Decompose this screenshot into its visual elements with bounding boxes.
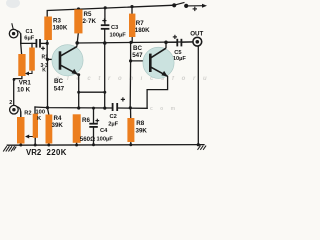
wire R4 top lead	[48, 108, 49, 114]
node: Q2 collector on output line	[164, 41, 168, 45]
wire OUT down lead	[197, 46, 199, 144]
capacitor C3	[101, 19, 126, 39]
resistor R4	[46, 115, 64, 144]
capacitor C4	[89, 119, 113, 143]
node: Q2 base at circle	[144, 59, 147, 62]
node: R8 bottom on ground rail	[129, 143, 132, 146]
wire C3 top lead	[104, 8, 106, 25]
capacitor C5	[173, 35, 187, 62]
wire R8 bottom lead	[130, 142, 132, 145]
node: emitter branch left	[77, 91, 80, 94]
svg-text:220K: 220K	[47, 148, 67, 157]
svg-text:39K: 39K	[136, 128, 148, 135]
svg-text:39K: 39K	[52, 122, 64, 129]
svg-text:R8: R8	[136, 120, 144, 127]
svg-text:R6: R6	[82, 117, 90, 124]
capacitor C2	[108, 97, 125, 127]
svg-text:547: 547	[132, 52, 143, 59]
wire R7 bottom lead	[131, 37, 133, 61]
svg-text:C3: C3	[111, 25, 118, 31]
svg-text:560Ω: 560Ω	[80, 136, 95, 143]
svg-text:10µF: 10µF	[173, 56, 187, 62]
wire C4 bottom lead	[93, 127, 95, 144]
wire jack1 hook to VR1	[20, 43, 23, 54]
wire C5 right	[182, 41, 193, 43]
wire Q2 emitter path	[147, 77, 168, 109]
wire R7-R8 column	[129, 61, 131, 108]
resistor R6	[73, 114, 95, 143]
wire emitter-C3 cross branch	[79, 91, 105, 93]
wire VR2 bottom lead	[20, 144, 22, 146]
svg-text:R7: R7	[136, 20, 144, 27]
node: C4 bottom on ground rail	[92, 143, 95, 146]
resistor R3	[44, 17, 68, 41]
svg-text:C1: C1	[26, 29, 33, 35]
svg-text:R4: R4	[54, 115, 62, 122]
svg-text:6µF: 6µF	[24, 35, 34, 41]
svg-text:2µF: 2µF	[108, 121, 118, 127]
svg-text:100µF: 100µF	[97, 137, 114, 143]
wire C1 input segment	[21, 34, 36, 44]
svg-text:R1: R1	[42, 54, 49, 60]
faint smudge top-left	[6, 0, 20, 8]
wire Q1 base lead	[47, 58, 59, 60]
node: R6 top on mid rail	[77, 106, 80, 109]
wire C5 left	[166, 41, 177, 43]
node: Q1 collector / R5 bottom	[75, 41, 79, 45]
wire R2 bottom lead	[34, 138, 36, 145]
node: emitter branch right	[103, 91, 106, 94]
wire Q1 emitter column	[78, 75, 80, 108]
watermark	[56, 76, 210, 112]
svg-text:547: 547	[54, 86, 65, 93]
capacitor C1	[24, 29, 45, 50]
wire Q1 base column	[46, 40, 48, 108]
resistor R1	[29, 48, 48, 74]
node: R4 bottom on ground rail	[47, 144, 50, 147]
switch S1	[172, 2, 207, 11]
wire jack2 hook to VR2	[20, 112, 22, 117]
transistor Q2 BC547	[132, 43, 174, 79]
node: Q2 base tee	[129, 59, 132, 62]
ground right	[198, 146, 207, 150]
wire Q2 base lead	[131, 60, 151, 62]
svg-text:100: 100	[36, 110, 46, 116]
node: C3 column on mid rail	[103, 107, 106, 110]
low mid rail	[35, 107, 112, 108]
node: C3 top on supply rail	[104, 6, 107, 9]
node: VR2 bottom on ground rail	[19, 144, 22, 147]
potentiometer VR2	[17, 117, 67, 157]
node: R2 bottom on ground rail	[34, 144, 37, 147]
svg-text:BC: BC	[133, 45, 142, 52]
node: R7 bottom on collector line	[129, 41, 132, 44]
resistor R7	[129, 14, 150, 37]
node: C3 bottom on collector line	[103, 41, 107, 45]
collector/output line	[77, 42, 193, 43]
svg-text:180K: 180K	[135, 27, 150, 34]
svg-text:2: 2	[9, 100, 12, 106]
svg-text:R2: R2	[24, 111, 31, 117]
wire R7 top lead	[131, 6, 133, 13]
svg-text:C2: C2	[110, 114, 117, 120]
svg-text:c o m: c o m	[150, 106, 178, 112]
node: R7 top on supply rail	[130, 5, 133, 8]
wire C3 bottom lead / column	[104, 29, 106, 108]
node: C4 top on mid rail	[92, 107, 95, 110]
svg-text:R5: R5	[84, 11, 92, 18]
svg-text:K: K	[42, 68, 46, 74]
node A: C1 out / R3 bottom	[46, 42, 49, 45]
svg-text:VR1: VR1	[19, 79, 32, 86]
paper background	[0, 0, 240, 157]
wire R1 top lead	[31, 43, 33, 47]
input jack 1	[9, 23, 21, 43]
transistor Q1 BC547	[52, 43, 83, 93]
svg-text:BC: BC	[54, 78, 63, 85]
wire R5 bottom lead	[77, 33, 78, 43]
bottom ground rail	[7, 144, 204, 147]
wire C1 output segment	[41, 42, 48, 44]
wire R5 top lead	[78, 8, 80, 10]
svg-text:100µF: 100µF	[110, 33, 127, 39]
node: R6 bottom on ground rail	[75, 144, 78, 147]
svg-text:VR2: VR2	[26, 148, 42, 157]
top supply rail	[47, 5, 174, 16]
input jack 2	[9, 100, 21, 117]
svg-text:180K: 180K	[53, 25, 68, 32]
potentiometer VR1	[17, 54, 32, 94]
wire R8 top lead	[130, 108, 132, 118]
svg-text:2·7K: 2·7K	[83, 18, 97, 25]
node: C2 / R8 junction	[129, 106, 132, 109]
wire R4 bottom lead	[48, 144, 50, 146]
node: VR1 bottom corner	[13, 78, 16, 81]
svg-text:10 K: 10 K	[17, 87, 31, 94]
svg-text:C4: C4	[100, 128, 108, 134]
wire R2 top lead	[34, 107, 36, 114]
node: R2-R4 tee on mid rail	[46, 106, 49, 109]
wire VR1 bottom to jack2	[14, 76, 22, 105]
wire C4 top lead	[93, 108, 95, 123]
node: Q1 emitter exit	[77, 73, 80, 76]
resistor R8	[127, 118, 147, 142]
node: OUT lead on ground rail	[197, 143, 200, 146]
wire R6 bottom lead	[76, 143, 78, 145]
svg-text:R3: R3	[53, 18, 61, 25]
node: R5 top on supply rail	[77, 7, 80, 10]
svg-text:OUT: OUT	[190, 31, 203, 38]
OUT terminal	[190, 31, 203, 47]
node: Q1 base	[46, 58, 49, 61]
resistor R2	[24, 110, 45, 138]
ground left	[3, 146, 16, 151]
resistor R5	[74, 9, 96, 33]
